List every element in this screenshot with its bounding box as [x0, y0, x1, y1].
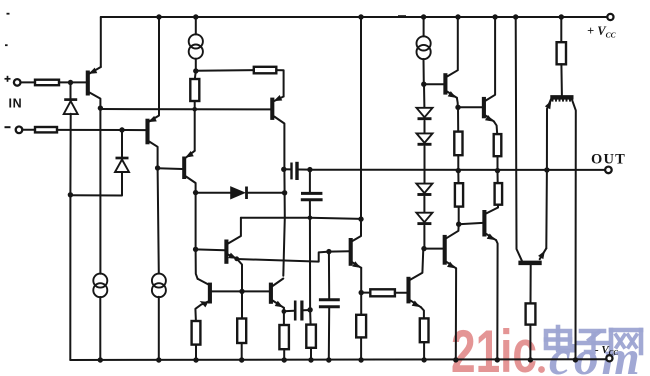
svg-text:IN: IN [9, 97, 23, 111]
svg-text:21ic: 21ic [451, 318, 537, 376]
svg-text:OUT: OUT [591, 152, 626, 168]
